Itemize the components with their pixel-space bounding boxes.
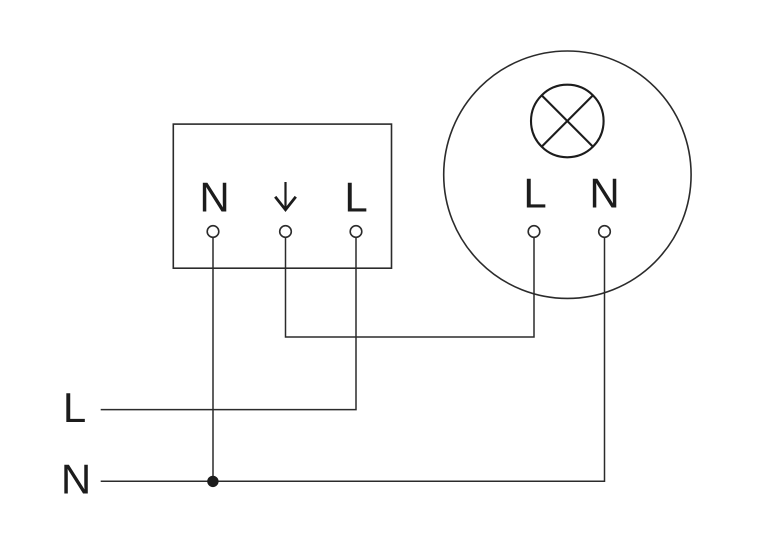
wire: switched output (arrow) to luminaire L [286, 237, 535, 337]
terminal pin L of luminaire [528, 226, 540, 238]
svg-text:N: N [61, 456, 91, 503]
wire: L feed from supply to box terminal L [101, 237, 356, 409]
svg-text:N: N [199, 174, 229, 221]
terminal pin N of box [207, 226, 219, 238]
lamp symbol (circle with cross) [531, 85, 604, 158]
svg-text:L: L [63, 384, 86, 431]
wire: N feed from supply across to luminaire N [101, 237, 605, 481]
junction dot on N feed [207, 476, 218, 487]
switched-output arrow symbol [275, 182, 296, 210]
terminal pin N of luminaire [599, 226, 611, 238]
terminal pin arrow of box [280, 226, 292, 238]
terminal pin L of box [350, 226, 362, 238]
sensor terminal box U1 [173, 124, 391, 268]
svg-text:N: N [589, 170, 619, 217]
wire: box terminal N down to N feed [212, 237, 214, 481]
luminaire body (circle) E1 [444, 51, 691, 298]
svg-text:L: L [523, 170, 546, 217]
svg-text:L: L [344, 174, 367, 221]
